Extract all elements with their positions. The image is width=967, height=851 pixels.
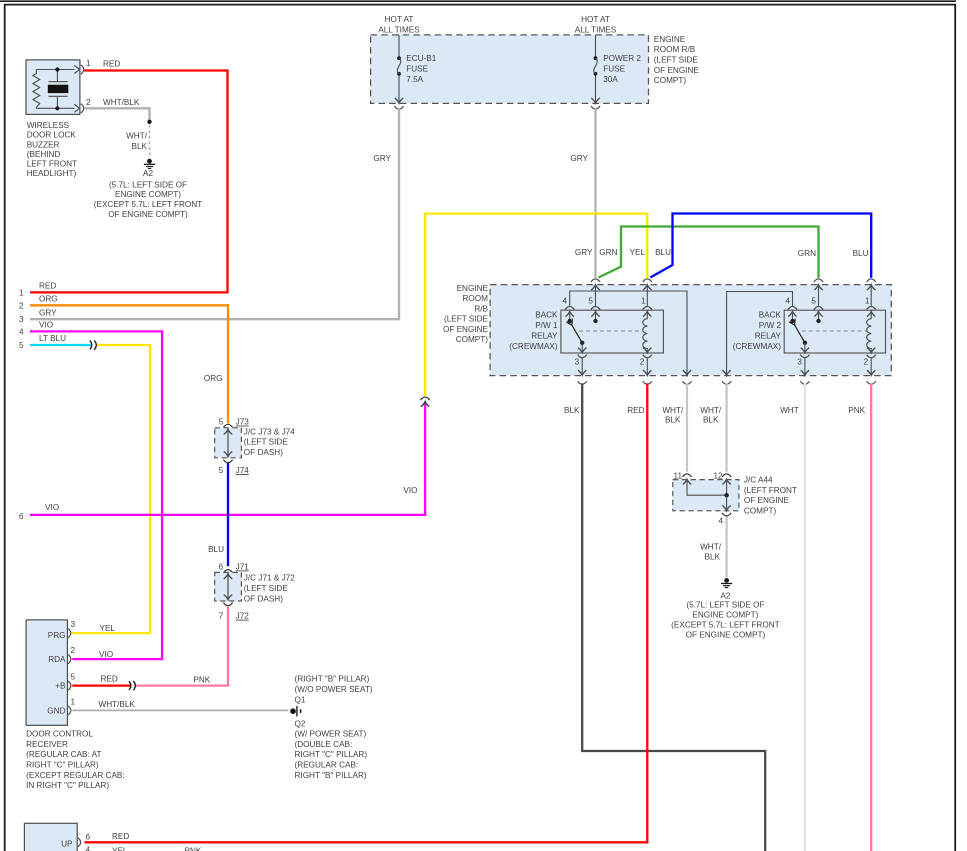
svg-text:DOOR LOCK: DOOR LOCK	[27, 131, 77, 140]
svg-text:YEL: YEL	[630, 248, 646, 257]
svg-text:BLK: BLK	[564, 406, 580, 415]
wire WHT/BLK relay2 pin4 to J/C A44 pin 12	[725, 383, 727, 472]
svg-text:(W/O POWER SEAT): (W/O POWER SEAT)	[295, 685, 373, 694]
svg-text:GRN: GRN	[798, 249, 816, 258]
relay 1 pin 1 cup	[643, 307, 652, 310]
wire GRN relay1 pin5 to relay2 pin5	[599, 227, 819, 278]
svg-text:IN RIGHT "C" PILLAR): IN RIGHT "C" PILLAR)	[26, 781, 109, 790]
svg-text:(CREWMAX): (CREWMAX)	[509, 342, 557, 351]
svg-text:6: 6	[219, 563, 224, 572]
engine room R/B relay box	[490, 285, 891, 376]
wire GRY fuse ECU-B1 to connector 3	[30, 109, 399, 320]
relay exit cup RED	[643, 381, 652, 384]
svg-text:2: 2	[640, 358, 645, 367]
svg-text:WHT/BLK: WHT/BLK	[103, 98, 140, 107]
svg-text:J/C J71 & J72: J/C J71 & J72	[244, 574, 295, 583]
svg-text:OF ENGINE: OF ENGINE	[744, 496, 790, 505]
J72 arrow down	[224, 595, 232, 600]
svg-text:WHT: WHT	[780, 406, 799, 415]
svg-text:ALL TIMES: ALL TIMES	[378, 25, 420, 34]
relay 2 pin 1 cup	[867, 307, 876, 310]
relay 1 pin 1 arrow	[643, 311, 651, 316]
svg-text:30A: 30A	[603, 75, 618, 84]
wireless door lock buzzer box	[26, 60, 80, 115]
junction dot WHT/BLK	[147, 120, 151, 124]
svg-text:(5.7L: LEFT SIDE OF: (5.7L: LEFT SIDE OF	[686, 601, 764, 610]
svg-text:P/W 2: P/W 2	[759, 321, 782, 330]
wire VIO connector 4 to receiver RDA	[30, 331, 162, 659]
relay exit cup WHT	[800, 381, 809, 384]
wire dashed to ground A2	[149, 125, 151, 159]
relay 2 pin 1 arrow	[867, 311, 875, 316]
relay exit cup PNK	[867, 381, 876, 384]
relay 2 pin 5 contact	[818, 311, 820, 321]
svg-text:FUSE: FUSE	[406, 65, 428, 74]
svg-text:OF ENGINE COMPT): OF ENGINE COMPT)	[686, 630, 766, 639]
svg-text:PNK: PNK	[848, 406, 865, 415]
wire RED relay1 pin2 to UP 6	[85, 383, 648, 842]
svg-text:RED: RED	[627, 406, 644, 415]
svg-text:3: 3	[19, 315, 24, 324]
relay 1 pin 4 arrow	[566, 311, 574, 316]
wire BLU J74 to J71	[227, 463, 229, 566]
wire VIO connector 6	[30, 403, 425, 515]
svg-text:5: 5	[588, 296, 593, 305]
J/C A44 junction dot	[724, 493, 728, 497]
svg-text:ROOM R/B: ROOM R/B	[654, 45, 696, 54]
relay exit cup WHT/BLK 2	[722, 381, 731, 384]
fuse POWER 2 exit cup	[591, 106, 600, 109]
svg-text:6: 6	[86, 832, 91, 841]
relay 1 entry pin1 cup	[643, 279, 652, 282]
svg-text:4: 4	[19, 327, 24, 336]
svg-text:ENGINE: ENGINE	[654, 35, 686, 44]
fuse POWER 2 30A	[594, 56, 598, 60]
relay 1 pin 3 exit arrow	[578, 370, 586, 375]
svg-text:BLU: BLU	[655, 248, 671, 257]
connector VIO to YEL arrow	[421, 402, 429, 407]
wire ORG connector 2 to J73	[30, 305, 228, 423]
svg-text:BLU: BLU	[853, 249, 869, 258]
wire YEL to receiver PRG	[72, 345, 150, 633]
svg-text:(LEFT FRONT: (LEFT FRONT	[744, 486, 797, 495]
svg-text:J73: J73	[236, 418, 250, 427]
wire BLU relay1 pin1 to relay2 pin1	[650, 214, 871, 278]
svg-text:(EXCEPT 5.7L: LEFT FRONT: (EXCEPT 5.7L: LEFT FRONT	[671, 620, 779, 629]
relay 1 internal wire pin1	[646, 285, 648, 306]
fuse ECU-B1 7.5A	[397, 56, 401, 60]
svg-text:OF ENGINE: OF ENGINE	[443, 325, 489, 334]
wire BLU end cup	[223, 570, 232, 573]
junction dot buzzer bottom	[55, 106, 59, 110]
relay 2 pin4 branch wire	[727, 292, 793, 376]
J71 arrow up	[224, 574, 232, 579]
relay 2 pin 2 exit arrow	[867, 370, 875, 375]
svg-text:FUSE: FUSE	[603, 65, 625, 74]
relay 1 pin4 branch wire	[570, 291, 687, 375]
svg-text:OF ENGINE COMPT): OF ENGINE COMPT)	[108, 210, 188, 219]
svg-text:Q2: Q2	[295, 719, 306, 728]
wire RED receiver +B	[72, 684, 131, 686]
svg-text:BLK: BLK	[703, 416, 719, 425]
relay 2 pin 5 cup	[814, 307, 823, 310]
relay 1 pin 2 exit arrow	[643, 370, 651, 375]
svg-text:A2: A2	[720, 591, 730, 600]
svg-text:RECEIVER: RECEIVER	[26, 740, 68, 749]
svg-text:3: 3	[797, 358, 802, 367]
svg-text:GRY: GRY	[575, 248, 593, 257]
svg-text:6: 6	[19, 512, 24, 521]
UP pin 6	[78, 838, 81, 847]
J/C A44 pin 4 cup	[722, 513, 731, 516]
svg-text:Q1: Q1	[295, 695, 306, 704]
svg-text:J74: J74	[236, 466, 250, 475]
J/C A44 pin 11 cup	[682, 474, 691, 477]
svg-text:R/B: R/B	[474, 304, 488, 313]
connector Q1/Q2	[290, 708, 296, 714]
svg-text:GRY: GRY	[373, 154, 391, 163]
svg-text:COMPT): COMPT)	[456, 335, 489, 344]
relay 2 pin 4 cup	[788, 307, 797, 310]
relay 1 pin 3 wire	[581, 343, 583, 353]
svg-text:PRG: PRG	[48, 631, 66, 640]
svg-text:POWER 2: POWER 2	[603, 54, 641, 63]
receiver pin 5	[68, 681, 71, 690]
J/C J71 J72 box	[215, 572, 242, 601]
relay 1 pin 4 contact	[569, 311, 571, 321]
svg-text:UP: UP	[61, 840, 73, 849]
svg-text:BLU: BLU	[208, 545, 224, 554]
svg-text:BLK: BLK	[705, 552, 721, 561]
wire RED from buzzer pin 1 to connector 1	[30, 71, 228, 293]
svg-text:ROOM: ROOM	[463, 294, 489, 303]
svg-text:(BEHIND: (BEHIND	[27, 150, 61, 159]
J72 cup	[223, 603, 232, 606]
svg-text:VIO: VIO	[45, 503, 59, 512]
receiver pin 3	[68, 629, 71, 638]
wire ORG end cup	[223, 424, 232, 427]
power window switch UP box	[24, 823, 77, 851]
svg-text:3: 3	[575, 358, 580, 367]
svg-text:(5.7L: LEFT SIDE OF: (5.7L: LEFT SIDE OF	[109, 180, 187, 189]
receiver pin 2	[68, 655, 71, 664]
svg-text:COMPT): COMPT)	[654, 76, 687, 85]
svg-text:(W/ POWER SEAT): (W/ POWER SEAT)	[295, 730, 367, 739]
J/C J73 J74 box	[215, 428, 242, 458]
svg-text:(LEFT SIDE: (LEFT SIDE	[244, 438, 289, 447]
relay 2 internal wire pin1	[870, 285, 872, 306]
svg-text:5: 5	[219, 466, 224, 475]
fuse ECU-B1 wire	[398, 35, 400, 58]
buzzer internal top wire	[36, 69, 74, 71]
relay 1 pin 2 exit wire	[646, 358, 648, 375]
buzzer internal bottom wire	[36, 107, 74, 109]
engine room R/B fuse box	[371, 35, 649, 104]
relay 2 pin 3 exit arrow	[801, 370, 809, 375]
svg-text:WIRELESS: WIRELESS	[27, 121, 70, 130]
svg-text:GRY: GRY	[39, 308, 57, 317]
svg-text:5: 5	[19, 341, 24, 350]
svg-text:RDA: RDA	[48, 655, 66, 664]
svg-text:4: 4	[785, 296, 790, 305]
svg-text:A2: A2	[143, 169, 153, 178]
J/C A44 pin 4 arrow	[722, 505, 730, 510]
wire GRY fuse POWER 2 to relay 1 pin 5	[594, 109, 596, 278]
wire WHT relay2 pin3 down	[804, 383, 806, 851]
svg-text:(LEFT SIDE: (LEFT SIDE	[444, 315, 489, 324]
J74 arrow down	[224, 451, 232, 456]
svg-text:(CREWMAX): (CREWMAX)	[733, 342, 781, 351]
relay 1 pin 5 arrow	[591, 311, 599, 316]
svg-text:4: 4	[86, 845, 91, 851]
svg-text:4: 4	[563, 296, 568, 305]
svg-text:RELAY: RELAY	[531, 332, 558, 341]
relay 1 entry pin5 cup	[591, 279, 600, 282]
relay 2 entry pin1 cup	[867, 279, 876, 282]
J/C A44 pin 12 arrow	[722, 479, 730, 484]
ground A2 right	[724, 578, 729, 583]
svg-text:YEL: YEL	[112, 846, 128, 851]
svg-text:RED: RED	[112, 832, 129, 841]
svg-text:7.5A: 7.5A	[406, 75, 423, 84]
svg-text:BLK: BLK	[132, 142, 148, 151]
relay 2 coil	[867, 311, 872, 352]
buzzer pin 2	[74, 104, 79, 112]
wire WHT/BLK relay1 pin4 to J/C A44 pin 11	[686, 383, 688, 472]
svg-text:2: 2	[864, 358, 869, 367]
svg-text:WHT/: WHT/	[126, 132, 148, 141]
svg-text:7: 7	[219, 612, 224, 621]
svg-text:5: 5	[811, 296, 816, 305]
svg-text:(REGULAR CAB: AT: (REGULAR CAB: AT	[26, 750, 101, 759]
svg-text:RIGHT "C" PILLAR): RIGHT "C" PILLAR)	[295, 750, 368, 759]
svg-text:RED: RED	[101, 675, 118, 684]
svg-text:DOOR CONTROL: DOOR CONTROL	[26, 730, 93, 739]
svg-text:RIGHT "B" PILLAR): RIGHT "B" PILLAR)	[295, 771, 367, 780]
svg-text:VIO: VIO	[99, 650, 113, 659]
relay 2 pin 3 cup	[800, 355, 809, 358]
svg-text:ENGINE COMPT): ENGINE COMPT)	[115, 190, 181, 199]
J/C A44 pin 12 cup	[722, 474, 731, 477]
svg-text:1: 1	[71, 697, 76, 706]
connector LT BLU to YEL	[90, 341, 92, 350]
svg-text:GRN: GRN	[599, 248, 617, 257]
svg-text:RED: RED	[103, 59, 120, 68]
relay 2 pin 5 arrow	[814, 311, 822, 316]
svg-text:ALL TIMES: ALL TIMES	[575, 25, 617, 34]
relay 1 pin 3 cup	[578, 355, 587, 358]
svg-text:(LEFT SIDE: (LEFT SIDE	[654, 56, 699, 65]
J/C A44 box	[673, 480, 739, 511]
buzzer piezo element	[56, 70, 58, 82]
svg-text:GRY: GRY	[570, 154, 588, 163]
svg-text:WHT/: WHT/	[700, 406, 722, 415]
fuse ECU-B1 exit cup	[394, 106, 403, 109]
svg-text:HOT AT: HOT AT	[385, 15, 414, 24]
relay 1 dashed link	[579, 330, 643, 332]
relay 1 pin 2 arrow	[643, 348, 651, 353]
relay 1 pin 5 contact	[595, 311, 597, 321]
svg-text:RED: RED	[39, 282, 56, 291]
J74 cup	[223, 460, 232, 463]
relay 2 internal wire pin5	[818, 285, 820, 306]
svg-text:GND: GND	[47, 706, 65, 715]
relay 1 switch arm	[572, 325, 582, 343]
svg-text:J71: J71	[236, 563, 250, 572]
relay 2 pin 4 contact	[792, 311, 794, 321]
svg-text:1: 1	[19, 288, 24, 297]
svg-text:COMPT): COMPT)	[744, 507, 777, 516]
relay 2 pin 2 arrow	[867, 348, 875, 353]
relay 2 entry pin1 arrow	[867, 285, 875, 290]
relay 1 pin 3 arrow	[578, 348, 586, 353]
wire WHT/BLK receiver GND to Q1/Q2	[72, 709, 288, 711]
relay 1 pin 3 exit wire	[581, 358, 583, 375]
relay 2 entry pin5 arrow	[814, 285, 822, 290]
svg-text:ORG: ORG	[204, 374, 223, 383]
relay 2 dashed link	[802, 330, 867, 332]
relay 1 coil	[643, 311, 648, 352]
junction dot buzzer top	[55, 67, 59, 71]
svg-text:ENGINE: ENGINE	[457, 284, 489, 293]
svg-text:BACK: BACK	[759, 310, 782, 319]
fuse POWER 2 wire	[595, 35, 597, 58]
svg-text:BACK: BACK	[535, 310, 558, 319]
buzzer pin 1	[74, 66, 79, 74]
ground A2 left	[147, 159, 152, 164]
relay 2 pin 2 cup	[867, 355, 876, 358]
relay 2 pin 4 exit arrow	[722, 370, 730, 375]
svg-text:OF DASH): OF DASH)	[244, 594, 283, 603]
svg-text:LT BLU: LT BLU	[39, 334, 66, 343]
J73 arrow up	[224, 429, 232, 434]
svg-text:(REGULAR CAB:: (REGULAR CAB:	[295, 761, 359, 770]
relay 2 switch arm	[795, 325, 805, 343]
top rule	[0, 0, 956, 2]
svg-text:OF DASH): OF DASH)	[244, 448, 283, 457]
relay exit cup WHT/BLK 1	[682, 381, 691, 384]
relay 1 pin 5 cup	[591, 307, 600, 310]
relay 1 pin 4 cup	[565, 307, 574, 310]
svg-text:YEL: YEL	[100, 624, 116, 633]
relay 1 internal wire pin5	[595, 285, 597, 306]
relay 2 pin 3 exit wire	[804, 358, 806, 375]
J/C A44 internal wires	[687, 480, 727, 496]
wire WHT/BLK from buzzer pin 2	[84, 108, 149, 122]
svg-text:WHT/: WHT/	[700, 543, 722, 552]
wire WHT/BLK J/C A44 pin4 to ground A2	[725, 517, 727, 578]
J73 internal wire	[227, 429, 229, 456]
svg-text:WHT/BLK: WHT/BLK	[99, 700, 136, 709]
svg-text:OF ENGINE: OF ENGINE	[654, 66, 700, 75]
relay 1 entry pin1 arrow	[643, 285, 651, 290]
relay 1 pin 4 exit arrow	[683, 370, 691, 375]
svg-text:5: 5	[71, 673, 76, 682]
svg-text:PNK: PNK	[185, 847, 202, 851]
svg-text:+B: +B	[55, 682, 66, 691]
svg-text:J/C A44: J/C A44	[744, 476, 773, 485]
svg-text:ECU-B1: ECU-B1	[406, 54, 436, 63]
connector VIO to YEL cup	[421, 397, 430, 400]
fuse ECU-B1 exit arrow	[395, 98, 403, 103]
svg-text:VIO: VIO	[403, 486, 417, 495]
relay 1 pin 2 cup	[643, 355, 652, 358]
wire YEL to relay 1 pin 1	[425, 214, 647, 396]
wire LT BLU connector 5	[30, 344, 92, 346]
wire BLK relay1 pin3 down	[582, 383, 765, 851]
svg-text:1: 1	[641, 296, 646, 305]
svg-text:(EXCEPT 5.7L: LEFT FRONT: (EXCEPT 5.7L: LEFT FRONT	[94, 200, 202, 209]
connector RED to PNK	[129, 681, 131, 690]
buzzer resistor	[33, 70, 40, 109]
svg-text:5: 5	[219, 418, 224, 427]
svg-text:1: 1	[86, 59, 91, 68]
svg-text:BLK: BLK	[665, 416, 681, 425]
relay 2 pin 3 wire	[804, 343, 806, 353]
svg-text:RIGHT "C" PILLAR): RIGHT "C" PILLAR)	[26, 761, 99, 770]
relay 2 pin 4 arrow	[788, 311, 796, 316]
svg-text:RELAY: RELAY	[755, 332, 782, 341]
relay 2 entry pin5 cup	[814, 279, 823, 282]
svg-text:J/C J73 & J74: J/C J73 & J74	[244, 427, 295, 436]
svg-text:VIO: VIO	[39, 321, 53, 330]
svg-text:2: 2	[86, 98, 91, 107]
svg-text:J72: J72	[236, 612, 250, 621]
svg-text:(EXCEPT REGULAR CAB:: (EXCEPT REGULAR CAB:	[26, 771, 125, 780]
svg-text:(LEFT SIDE: (LEFT SIDE	[244, 584, 289, 593]
svg-text:HEADLIGHT): HEADLIGHT)	[27, 169, 77, 178]
relay 2 pin 3 arrow	[801, 348, 809, 353]
J71 internal wire	[227, 574, 229, 600]
receiver pin 1	[68, 706, 71, 715]
svg-text:1: 1	[865, 296, 870, 305]
fuse POWER 2 exit arrow	[591, 98, 599, 103]
svg-text:BUZZER: BUZZER	[27, 140, 60, 149]
J/C A44 pin 11 arrow	[683, 479, 691, 484]
svg-text:2: 2	[19, 301, 24, 310]
svg-text:(RIGHT "B" PILLAR): (RIGHT "B" PILLAR)	[295, 675, 370, 684]
svg-text:HOT AT: HOT AT	[581, 15, 610, 24]
wire PNK relay2 pin2 down	[870, 383, 872, 851]
svg-text:(DOUBLE CAB:: (DOUBLE CAB:	[295, 740, 353, 749]
svg-text:LEFT FRONT: LEFT FRONT	[27, 160, 77, 169]
svg-text:3: 3	[71, 620, 76, 629]
svg-text:ORG: ORG	[39, 295, 58, 304]
relay 1 entry pin5 arrow	[591, 285, 599, 290]
svg-text:P/W 1: P/W 1	[535, 321, 558, 330]
door control receiver box	[26, 620, 67, 725]
relay 2 pin 2 exit wire	[870, 358, 872, 375]
svg-text:WHT/: WHT/	[662, 406, 684, 415]
back P/W 1 relay (CREWMAX) box	[561, 310, 664, 353]
back P/W 2 relay (CREWMAX) box	[784, 310, 885, 353]
wire PNK J72 to receiver +B	[136, 606, 228, 685]
svg-text:4: 4	[718, 517, 723, 526]
svg-text:2: 2	[71, 646, 76, 655]
relay exit cup BLK	[578, 381, 587, 384]
svg-text:ENGINE COMPT): ENGINE COMPT)	[692, 611, 758, 620]
svg-text:PNK: PNK	[193, 675, 210, 684]
